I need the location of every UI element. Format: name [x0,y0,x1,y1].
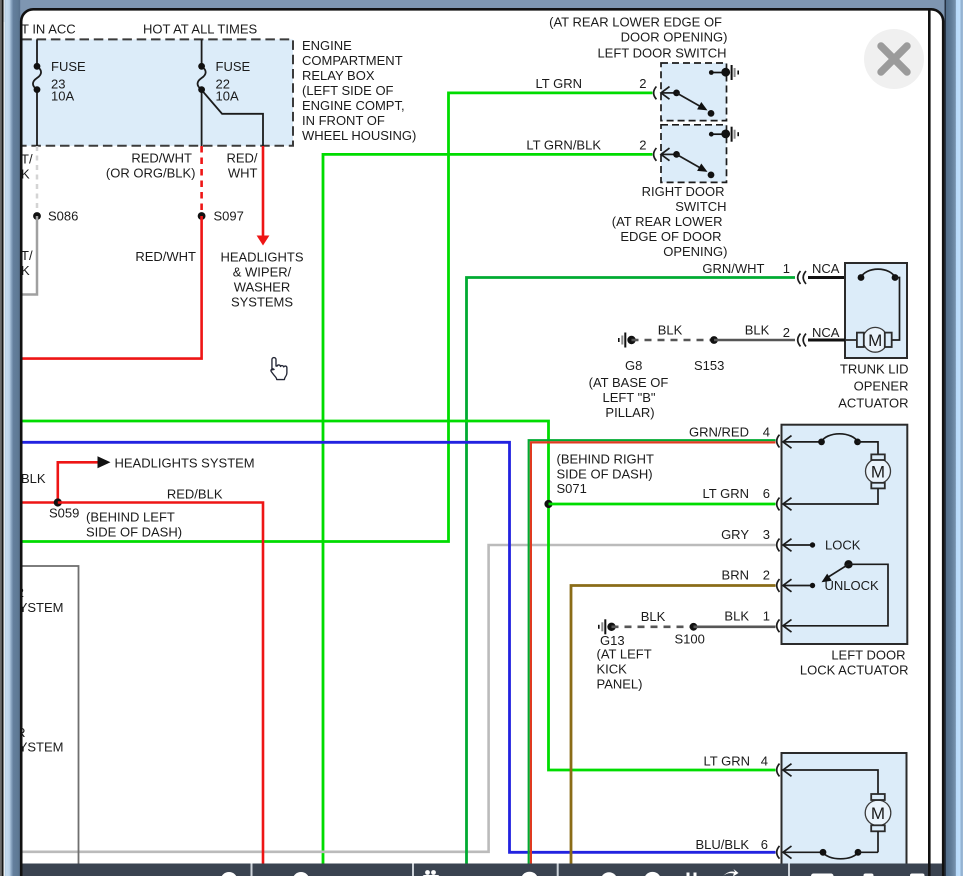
wire RED/BLK from S059 down [58,503,263,864]
left scrollbar strip [0,0,20,876]
wire GRN/WHT [467,278,796,864]
splice S086 [33,209,78,224]
fuse 22 10A [198,39,263,146]
svg-text:HEADLIGHTS: HEADLIGHTS [220,250,303,265]
inner right border line [928,10,931,876]
wire GRN/WHT label [702,261,764,276]
svg-text:(AT REAR LOWER: (AT REAR LOWER [612,214,723,229]
svg-text:OPENER: OPENER [854,379,909,394]
svg-text:(AT REAR LOWER EDGE OF: (AT REAR LOWER EDGE OF [549,15,722,30]
wire GRN/RED (green part) [529,440,776,863]
svg-text:2: 2 [639,138,646,153]
svg-text:(LEFT SIDE OF: (LEFT SIDE OF [302,83,394,98]
svg-text:S086: S086 [48,209,78,224]
svg-text:DOOR OPENING): DOOR OPENING) [621,30,728,45]
svg-text:S071: S071 [557,481,587,496]
left door switch contacts [661,87,714,117]
svg-text:ENGINE COMPT,: ENGINE COMPT, [302,98,405,113]
svg-text:& WIPER/: & WIPER/ [233,265,292,280]
svg-text:BLU/BLK: BLU/BLK [696,837,750,852]
svg-text:3: 3 [763,527,770,542]
lock actuator internal arc [818,434,878,455]
wire WHT/BLK label (clipped) [21,152,33,182]
node HOT IN ACC label [21,22,76,37]
bottom actuator internal arc [783,849,878,859]
left door switch ground [709,65,739,80]
svg-text:BLK: BLK [724,609,749,624]
motor M left door lock actuator [783,454,891,504]
wire gray from S086 to left edge [20,216,37,295]
svg-text:BLK: BLK [658,323,683,338]
svg-text:LEFT "B": LEFT "B" [602,390,655,405]
svg-text:BLK: BLK [21,471,46,486]
toolbar icons (partially visible) [221,869,925,876]
svg-text:(BEHIND RIGHT: (BEHIND RIGHT [557,452,655,467]
splice S059 [49,498,79,520]
relay box (engine compartment relay box) [8,39,293,145]
svg-text:COMPARTMENT: COMPARTMENT [302,53,403,68]
wire GRN/RED (red stripe) [531,442,776,863]
svg-text:LT GRN: LT GRN [704,754,750,769]
left door lock actuator [782,425,908,644]
fuse 22 value label [216,59,251,104]
svg-text:GRN/RED: GRN/RED [689,425,749,440]
svg-text:2: 2 [763,568,770,583]
wire RED/WHT label right [226,151,257,181]
svg-text:LOCK: LOCK [825,538,861,553]
svg-text:SWITCH: SWITCH [675,199,726,214]
svg-text:T/: T/ [21,152,33,167]
svg-text:4: 4 [763,425,770,440]
svg-text:KICK: KICK [597,662,628,677]
svg-text:SYSTEMS: SYSTEMS [231,295,293,310]
mouse cursor [271,358,287,380]
svg-text:WHT: WHT [228,166,258,181]
fuse 23 value label [51,59,86,104]
wire BRN to lock actuator pin 2 [571,586,776,864]
svg-text:WASHER: WASHER [234,280,291,295]
pin 2 left door lock actuator UNLOCK [722,560,888,626]
headlights systems label [220,250,303,310]
svg-text:LEFT DOOR: LEFT DOOR [831,648,905,663]
trunk lid opener actuator [845,263,907,358]
svg-text:M: M [871,462,885,481]
wire LT GRN S071 to lock actuator pin 6 [549,503,776,506]
wire WHT dashed from fuse 23 to S086 [36,146,39,216]
svg-text:S153: S153 [694,358,724,373]
pin 1 trunk lid opener actuator (NCA) [783,261,845,284]
svg-text:BRN: BRN [722,568,749,583]
pin 6 left door lock actuator [703,486,792,510]
svg-text:FUSE: FUSE [216,59,251,74]
left door lock actuator label [800,648,909,678]
svg-text:2: 2 [639,76,646,91]
wire LT GRN/BLK from right door switch [323,154,652,863]
wire GRY to lock actuator pin 3 [20,545,776,852]
svg-text:LT GRN: LT GRN [703,486,749,501]
close button [864,29,924,89]
pin 1 left door lock actuator [724,609,791,633]
svg-text:FUSE: FUSE [51,59,86,74]
ground G8 location label [589,375,669,420]
wire BLK dashed G8 to S153 [632,323,715,341]
right door switch contacts [661,148,714,178]
svg-text:LT GRN: LT GRN [536,76,582,91]
wire LT GRN label [536,76,582,91]
svg-text:PILLAR): PILLAR) [605,405,654,420]
svg-text:EDGE OF DOOR: EDGE OF DOOR [620,229,721,244]
svg-text:UNLOCK: UNLOCK [825,578,880,593]
wire red from S097 to left edge [20,216,202,359]
wire RED/WHT (OR ORG/BLK) label [106,151,196,181]
splice S071 location label [557,452,655,497]
pin 4 left door lock actuator [689,425,821,449]
svg-text:RED/WHT: RED/WHT [135,249,196,264]
page top band [0,0,963,22]
wire BLK label left (clipped) [21,471,46,486]
svg-text:LT GRN/BLK: LT GRN/BLK [526,138,601,153]
gray box label 1 (clipped) [10,585,63,615]
svg-text:GRY: GRY [721,527,749,542]
svg-text:GRN/WHT: GRN/WHT [702,261,764,276]
svg-text:6: 6 [763,486,770,501]
svg-text:OPENING): OPENING) [663,244,727,259]
left door switch label [549,15,727,61]
node HOT AT ALL TIMES label [143,22,257,37]
svg-text:LOCK ACTUATOR: LOCK ACTUATOR [800,663,909,678]
svg-text:TRUNK LID: TRUNK LID [840,362,909,377]
svg-text:10A: 10A [216,89,239,104]
svg-text:RIGHT DOOR: RIGHT DOOR [642,184,725,199]
wire WHT/BLK label 2 (clipped) [21,248,33,278]
wire LT GRN/BLK label [526,138,601,153]
pin 4 bottom actuator [704,754,878,795]
svg-text:1: 1 [783,261,790,276]
svg-text:ACTUATOR: ACTUATOR [838,396,908,411]
ground G13 [598,619,625,648]
wire BLK S100 to lock actuator pin 1 [694,625,776,628]
wire RED/WHT dashed from fuse 22 to S097 [200,146,203,216]
wire red from left edge to S059 [20,501,58,504]
trunk actuator internal contacts [858,269,900,340]
svg-text:ENGINE: ENGINE [302,38,352,53]
svg-text:2: 2 [783,325,790,340]
gray box label 2 (clipped) [10,725,63,755]
wire RED/BLK label [167,487,223,502]
svg-text:6: 6 [761,837,768,852]
svg-text:BLK: BLK [745,323,770,338]
svg-text:IN FRONT OF: IN FRONT OF [302,113,385,128]
relay box name label [302,38,416,143]
svg-text:4: 4 [761,754,768,769]
svg-text:T IN ACC: T IN ACC [21,22,76,37]
ground G8 [618,333,642,374]
wire red S059 to headlights system arrow [58,456,255,503]
svg-text:NCA: NCA [812,325,840,340]
svg-text:HOT AT ALL TIMES: HOT AT ALL TIMES [143,22,257,37]
toolbar [23,864,943,876]
splice S097 [198,209,244,224]
wire BLU to lock actuator [20,442,776,852]
right door switch ground [709,127,739,142]
svg-text:(OR ORG/BLK): (OR ORG/BLK) [106,166,196,181]
splice S100 [675,623,705,647]
svg-text:M: M [871,804,885,823]
svg-text:SIDE OF DASH): SIDE OF DASH) [557,467,653,482]
ground G13 location label [597,647,652,692]
svg-text:M: M [868,331,882,350]
wire BLK dashed G13 to S100 [612,609,694,627]
right door switch [661,125,727,183]
svg-text:10A: 10A [51,89,74,104]
pin 2 left door switch [639,76,656,99]
trunk lid opener actuator label [838,362,908,411]
svg-text:PANEL): PANEL) [597,677,643,692]
motor M trunk actuator [845,327,892,352]
pin 6 bottom actuator [696,837,792,859]
wire LT GRN net S071 trunk [20,421,776,770]
svg-text:G8: G8 [625,358,642,373]
pin 3 left door lock actuator LOCK [721,527,861,553]
svg-text:T/: T/ [21,248,33,263]
svg-text:S059: S059 [49,506,79,521]
svg-text:NCA: NCA [812,261,840,276]
wire LT GRN from left door switch [20,93,652,542]
fuse 23 10A [33,39,41,146]
pin 2 trunk lid opener actuator (NCA) [783,325,845,346]
svg-text:1: 1 [763,609,770,624]
svg-text:RED/: RED/ [226,151,257,166]
svg-text:BLK: BLK [641,609,666,624]
svg-text:RED/WHT: RED/WHT [131,151,192,166]
svg-text:HEADLIGHTS SYSTEM: HEADLIGHTS SYSTEM [115,456,255,471]
svg-text:(AT BASE OF: (AT BASE OF [589,375,669,390]
splice S071 [544,500,552,508]
svg-text:SIDE OF DASH): SIDE OF DASH) [86,525,182,540]
svg-text:(AT LEFT: (AT LEFT [597,647,652,662]
right scrollbar strip [945,0,963,876]
splice S059 location label [86,510,182,540]
svg-text:S100: S100 [675,632,705,647]
pin 2 right door switch [639,138,656,161]
svg-text:(BEHIND LEFT: (BEHIND LEFT [86,510,175,525]
svg-text:RED/BLK: RED/BLK [167,487,223,502]
gray box (other system, clipped) [8,566,79,876]
svg-text:S097: S097 [214,209,244,224]
wire RED/WHT to headlights arrow [257,146,270,246]
right door lock actuator (bottom) [782,753,907,868]
motor M bottom actuator [865,794,891,852]
splice S153 [694,336,724,373]
right door switch label [612,184,728,259]
wire BLK S153 to trunk actuator [714,323,795,341]
svg-text:LEFT DOOR SWITCH: LEFT DOOR SWITCH [597,46,726,61]
left door switch [661,63,727,121]
wire RED/WHT label lower [135,249,196,264]
svg-text:WHEEL HOUSING): WHEEL HOUSING) [302,128,416,143]
svg-text:RELAY BOX: RELAY BOX [302,68,375,83]
